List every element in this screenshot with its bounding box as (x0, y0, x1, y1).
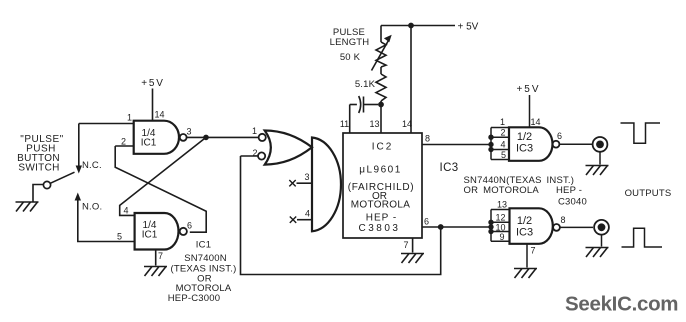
svg-text:50 K: 50 K (340, 52, 361, 63)
svg-text:1/2: 1/2 (517, 131, 532, 143)
svg-text:9: 9 (499, 232, 504, 242)
svg-text:5: 5 (117, 232, 122, 242)
svg-text:IC3: IC3 (516, 143, 533, 155)
svg-text:IC1: IC1 (141, 138, 157, 149)
svg-text:4: 4 (305, 209, 310, 219)
svg-text:2: 2 (121, 137, 126, 147)
svg-text:14: 14 (402, 119, 412, 129)
svg-text:HEP -: HEP - (556, 185, 582, 196)
svg-text:SeekIC.com: SeekIC.com (565, 293, 678, 316)
svg-text:+5V: +5V (516, 84, 540, 95)
svg-text:6: 6 (557, 131, 562, 141)
svg-text:14: 14 (531, 117, 541, 127)
svg-text:IC1: IC1 (196, 240, 211, 251)
svg-text:3: 3 (186, 127, 191, 137)
svg-text:8: 8 (560, 215, 565, 225)
svg-text:7: 7 (403, 240, 408, 250)
svg-text:HEP -: HEP - (366, 213, 398, 224)
svg-text:6: 6 (187, 221, 192, 231)
svg-text:12: 12 (495, 213, 505, 223)
svg-text:OUTPUTS: OUTPUTS (625, 188, 672, 199)
svg-text:μL9601: μL9601 (359, 165, 402, 176)
svg-text:1: 1 (500, 117, 505, 127)
svg-text:6: 6 (424, 217, 429, 227)
svg-text:+5V: +5V (141, 78, 164, 89)
svg-text:4: 4 (500, 140, 505, 150)
svg-text:11: 11 (340, 119, 349, 129)
svg-text:C3040: C3040 (558, 196, 587, 207)
svg-text:13: 13 (497, 200, 507, 210)
svg-text:7: 7 (530, 246, 535, 256)
svg-text:IC3: IC3 (516, 227, 533, 239)
svg-text:2: 2 (252, 148, 257, 158)
svg-text:N.C.: N.C. (82, 160, 102, 171)
svg-text:4: 4 (123, 206, 128, 216)
svg-text:1: 1 (127, 113, 132, 123)
svg-text:IC3: IC3 (440, 162, 459, 174)
svg-text:1/2: 1/2 (517, 215, 532, 227)
svg-text:2: 2 (500, 128, 505, 138)
svg-text:C3803: C3803 (359, 223, 401, 234)
svg-text:OR MOTOROLA: OR MOTOROLA (464, 185, 540, 196)
svg-text:SWITCH: SWITCH (18, 163, 59, 174)
svg-text:MOTOROLA: MOTOROLA (351, 200, 410, 211)
svg-text:13: 13 (369, 119, 379, 129)
svg-text:IC1: IC1 (142, 230, 158, 241)
svg-text:5: 5 (501, 150, 506, 160)
svg-text:14: 14 (155, 110, 165, 120)
svg-text:5.1K: 5.1K (355, 79, 376, 90)
svg-text:1: 1 (252, 126, 257, 136)
svg-text:LENGTH: LENGTH (330, 37, 370, 48)
svg-text:3: 3 (304, 172, 309, 182)
svg-text:N.O.: N.O. (82, 202, 102, 213)
svg-text:10: 10 (495, 223, 505, 233)
svg-text:7: 7 (158, 251, 163, 261)
svg-text:IC2: IC2 (372, 142, 394, 153)
svg-text:HEP-C3000: HEP-C3000 (168, 293, 221, 304)
svg-text:8: 8 (425, 134, 430, 144)
svg-text:+ 5V: + 5V (458, 22, 479, 33)
